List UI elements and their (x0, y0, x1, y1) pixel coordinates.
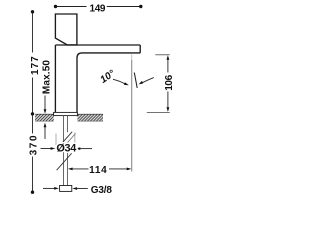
diameter 34 right arrow line (80, 148, 92, 150)
faucet spout top edge (55, 44, 140, 46)
svg-text:370: 370 (28, 134, 39, 156)
114 dimension line left segment (72, 168, 88, 170)
dimension 370 line upper segment (32, 114, 34, 134)
supply pipe right line lower segment (66, 153, 68, 186)
dimension 149 line left segment (56, 6, 87, 8)
dimension 177 line lower segment (32, 78, 34, 114)
G3/8 left arrowhead (54, 187, 59, 190)
faucet spout bottom edge with rounded inner corner and body right edge (77, 53, 140, 113)
dimension 149 end dot left (54, 5, 57, 8)
diameter 34 left arrowhead (51, 147, 56, 150)
106 bottom extension line (147, 111, 170, 113)
Max.50 upper arrowhead (down) (44, 109, 47, 114)
svg-text:177: 177 (30, 55, 41, 75)
dimension 177 end dot top (31, 10, 34, 13)
10 deg right leader arrowhead (139, 81, 144, 85)
countertop hatched section left (35, 114, 54, 121)
Max.50 lower leader line (44, 127, 46, 139)
svg-text:114: 114 (89, 165, 107, 176)
faucet body left edge (54, 45, 56, 113)
G3/8 right arrow line (77, 188, 88, 190)
svg-text:149: 149 (90, 4, 106, 15)
dimension 149 line right segment (107, 6, 141, 8)
lever tilted 10 deg line (134, 73, 137, 89)
svg-text:106: 106 (164, 74, 175, 90)
diameter 34 left arrow line (41, 148, 52, 150)
106 upper arrowhead (up) (167, 55, 170, 60)
Max.50 lower arrowhead (up) (44, 123, 47, 128)
faucet base flange (54, 112, 78, 115)
114 dimension left arrowhead (points at pipe) (68, 168, 73, 171)
10 deg left leader arc (113, 79, 126, 84)
water stream / extension line from spout outlet (131, 55, 133, 61)
10 deg right leader arc (141, 78, 154, 84)
dimension 177 end dot bottom (shared with 370) (31, 112, 34, 115)
G3/8 left arrow line (43, 187, 55, 189)
114 dimension line right segment (109, 168, 128, 170)
dimension 177 line upper segment (32, 12, 34, 53)
supply pipe right line upper segment (66, 116, 68, 133)
106 dimension line upper segment (167, 60, 169, 73)
106 lower arrowhead (down) (167, 107, 170, 112)
dimension 370 end dot bottom (31, 191, 34, 194)
Max.50 upper leader line (44, 96, 46, 111)
106 top extension line (155, 54, 169, 56)
svg-text:Max.50: Max.50 (41, 60, 52, 95)
supply pipe left line (63, 116, 65, 186)
svg-text:G3/8: G3/8 (91, 185, 113, 196)
10 deg left leader arrowhead (124, 82, 129, 85)
faucet lever handle (55, 14, 77, 45)
pipe break slash upper (61, 132, 72, 144)
dimension 149 end dot right (139, 5, 142, 8)
pipe break slash lower (57, 153, 72, 170)
dimension 370 line lower segment (32, 157, 34, 193)
pipe break slash upper second (67, 133, 76, 143)
106 dimension line lower segment (167, 92, 169, 108)
diameter 34 left extension line (55, 134, 57, 151)
diameter 34 right extension line (74, 133, 76, 153)
diameter 34 right arrowhead (76, 147, 81, 150)
svg-text:Ø34: Ø34 (56, 142, 76, 154)
G3/8 connection nut (60, 186, 72, 192)
G3/8 right arrowhead (72, 187, 77, 190)
faucet spout right end edge (139, 45, 141, 53)
countertop hatched section right (77, 114, 103, 121)
114 dimension right arrowhead (points at stream axis) (127, 168, 132, 171)
